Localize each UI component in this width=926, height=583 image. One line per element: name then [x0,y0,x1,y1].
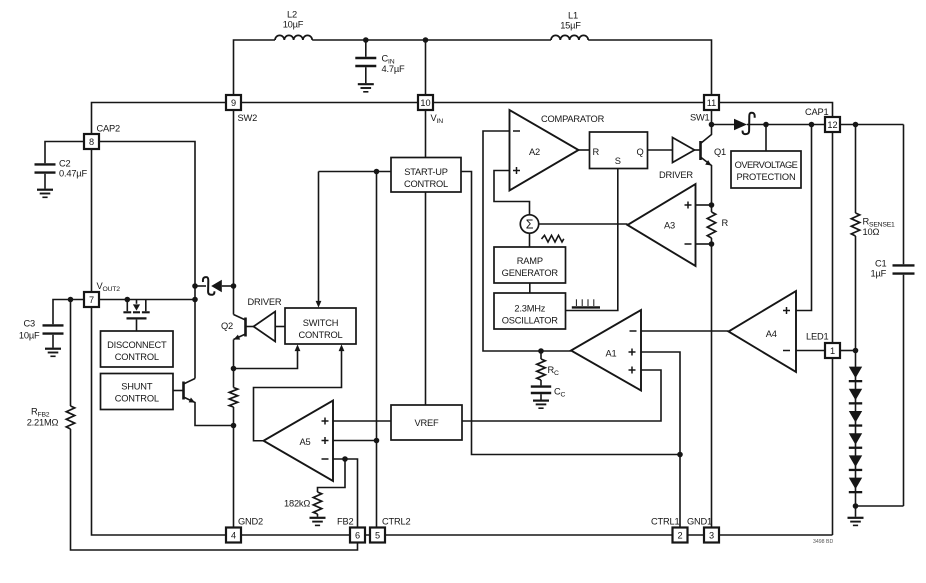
svg-text:OVERVOLTAGE: OVERVOLTAGE [735,160,798,170]
svg-text:12: 12 [827,120,837,130]
svg-text:PROTECTION: PROTECTION [737,172,796,182]
svg-text:SW2: SW2 [238,113,258,123]
svg-text:SWITCH: SWITCH [303,318,338,328]
svg-text:15µF: 15µF [560,21,581,31]
svg-text:6: 6 [355,531,360,541]
svg-text:DISCONNECT: DISCONNECT [107,340,167,350]
svg-text:1: 1 [830,346,835,356]
svg-text:Q: Q [636,147,643,157]
svg-text:R: R [722,218,729,228]
svg-text:COMPARATOR: COMPARATOR [541,114,605,124]
svg-text:Q1: Q1 [714,147,726,157]
svg-text:A5: A5 [300,437,311,447]
svg-text:FB2: FB2 [337,516,353,526]
svg-text:CONTROL: CONTROL [115,393,159,403]
svg-text:S: S [615,156,621,166]
svg-text:GND2: GND2 [238,516,263,526]
svg-text:3498 BD: 3498 BD [813,539,833,545]
svg-text:DRIVER: DRIVER [248,297,282,307]
svg-text:CAP2: CAP2 [97,123,121,133]
svg-text:2: 2 [677,531,682,541]
svg-text:182kΩ: 182kΩ [284,498,310,508]
svg-text:7: 7 [89,295,94,305]
svg-text:2.21MΩ: 2.21MΩ [27,418,59,428]
svg-text:Q2: Q2 [221,321,233,331]
svg-text:5: 5 [375,531,380,541]
svg-text:RAMP: RAMP [517,256,543,266]
svg-text:C1: C1 [875,259,887,269]
svg-text:GND1: GND1 [687,516,712,526]
svg-text:2.3MHz: 2.3MHz [514,303,545,313]
svg-text:11: 11 [707,98,717,108]
svg-text:CTRL2: CTRL2 [382,516,410,526]
svg-text:C3: C3 [24,319,36,329]
svg-text:1µF: 1µF [871,269,887,279]
svg-text:C2: C2 [59,158,71,168]
svg-text:10: 10 [420,98,430,108]
svg-text:8: 8 [89,137,94,147]
svg-text:SW1: SW1 [690,113,710,123]
svg-text:A3: A3 [664,220,675,230]
svg-text:10µF: 10µF [19,331,40,341]
svg-text:CONTROL: CONTROL [404,179,448,189]
svg-text:4: 4 [231,531,236,541]
svg-text:10µF: 10µF [283,20,304,30]
svg-text:CAP1: CAP1 [805,107,829,117]
svg-text:A2: A2 [529,147,540,157]
svg-text:CONTROL: CONTROL [298,330,342,340]
svg-text:SHUNT: SHUNT [121,381,153,391]
svg-text:A1: A1 [606,349,617,359]
svg-text:A4: A4 [766,329,777,339]
svg-text:CONTROL: CONTROL [115,352,159,362]
svg-text:CTRL1: CTRL1 [651,516,679,526]
svg-text:LED1: LED1 [806,332,828,342]
svg-text:DRIVER: DRIVER [659,170,693,180]
svg-text:VREF: VREF [415,418,440,428]
svg-text:10Ω: 10Ω [863,227,880,237]
svg-text:4.7µF: 4.7µF [382,64,405,74]
svg-text:GENERATOR: GENERATOR [502,268,559,278]
svg-text:9: 9 [231,98,236,108]
svg-text:L2: L2 [287,10,297,20]
svg-text:START-UP: START-UP [404,167,448,177]
svg-text:3: 3 [709,531,714,541]
svg-text:Σ: Σ [526,218,534,232]
svg-text:R: R [593,147,600,157]
svg-text:0.47µF: 0.47µF [59,168,87,178]
svg-text:OSCILLATOR: OSCILLATOR [502,315,559,325]
svg-text:L1: L1 [568,11,578,21]
